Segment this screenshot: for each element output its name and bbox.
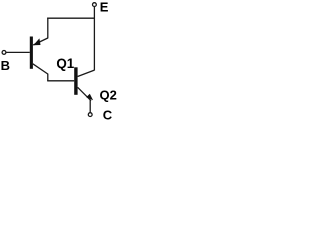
transistor Q1 emitter arrowhead (PNP, pointing into bar) [33,38,40,45]
wire top E to Q1 emitter [47,17,95,19]
transistor Q1 emitter diagonal [33,38,48,45]
svg-text:E: E [100,0,109,14]
wire base B to Q1 [6,51,30,53]
svg-text:B: B [1,58,10,73]
wire Q1 emitter vertical [47,18,49,39]
svg-text:Q2: Q2 [100,87,117,102]
svg-text:Q1: Q1 [56,56,74,71]
terminal C [88,113,92,117]
transistor Q2 base bar [74,67,77,95]
transistor Q1 collector diagonal [33,64,48,74]
wire Q1 collector vertical [47,74,49,81]
transistor Q1 base bar [30,37,33,69]
svg-text:C: C [103,107,113,122]
wire Q2 collector vertical to E [93,7,95,71]
terminal B [2,51,6,55]
wire Q2 emitter to C [89,100,91,112]
wire Q1 collector to Q2 base [47,80,74,82]
transistor Q2 emitter diagonal [78,87,91,100]
terminal E [93,3,97,7]
transistor Q2 emitter arrowhead (NPN, pointing out) [86,94,93,101]
transistor Q2 collector diagonal [78,70,95,76]
